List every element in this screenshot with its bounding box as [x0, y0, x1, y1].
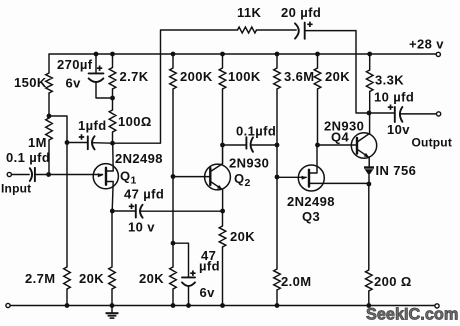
svg-text:6v: 6v: [200, 285, 216, 300]
svg-text:0.1 µfd: 0.1 µfd: [6, 150, 50, 165]
svg-text:20K: 20K: [325, 69, 350, 84]
svg-text:10v: 10v: [387, 122, 410, 137]
svg-text:IN 756: IN 756: [376, 163, 417, 178]
svg-text:2.0M: 2.0M: [281, 274, 312, 289]
svg-text:100K: 100K: [228, 69, 261, 84]
svg-text:2N930: 2N930: [229, 156, 269, 171]
svg-text:47 µfd: 47 µfd: [124, 187, 164, 202]
svg-text:2.7M: 2.7M: [25, 271, 56, 286]
svg-text:1M: 1M: [28, 135, 47, 150]
svg-text:1µfd: 1µfd: [78, 118, 107, 133]
svg-text:SeekIC.com: SeekIC.com: [366, 306, 458, 324]
svg-text:0.1µfd: 0.1µfd: [236, 124, 276, 139]
svg-text:20K: 20K: [79, 271, 104, 286]
svg-text:2N2498: 2N2498: [115, 151, 163, 166]
svg-text:20K: 20K: [230, 229, 255, 244]
svg-text:2N2498: 2N2498: [287, 194, 335, 209]
svg-text:Q4: Q4: [331, 130, 350, 145]
svg-text:3.3K: 3.3K: [375, 73, 404, 88]
svg-text:2.7K: 2.7K: [120, 69, 149, 84]
svg-text:µfd: µfd: [199, 259, 220, 274]
svg-text:3.6M: 3.6M: [284, 69, 315, 84]
svg-text:6v: 6v: [66, 76, 82, 91]
svg-text:270µf: 270µf: [57, 57, 93, 72]
svg-text:20 µfd: 20 µfd: [281, 5, 321, 20]
svg-text:11K: 11K: [237, 5, 262, 20]
svg-text:20K: 20K: [139, 271, 164, 286]
svg-text:150K: 150K: [14, 75, 47, 90]
svg-text:200 Ω: 200 Ω: [374, 274, 412, 289]
svg-text:200K: 200K: [180, 69, 213, 84]
svg-text:100Ω: 100Ω: [118, 114, 152, 129]
svg-text:10 v: 10 v: [128, 220, 155, 235]
svg-text:Q3: Q3: [302, 209, 320, 224]
svg-text:Input: Input: [1, 182, 31, 196]
svg-text:Output: Output: [412, 136, 453, 150]
svg-text:10 µfd: 10 µfd: [374, 90, 414, 105]
svg-text:+28 v: +28 v: [409, 37, 444, 52]
